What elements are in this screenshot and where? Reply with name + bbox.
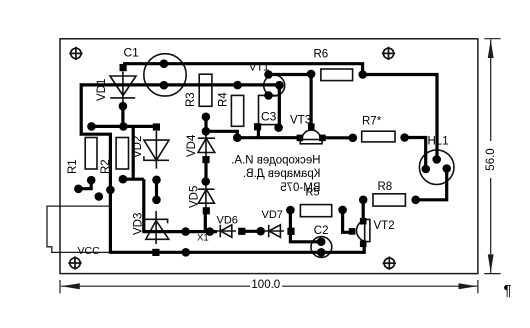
diode VD6	[216, 225, 236, 238]
node jumper VD2 bottom	[152, 196, 161, 205]
wire: rail2 VD1/C1/VT1 and left drop to VCC rail across bottom to VT2	[81, 85, 364, 252]
resistor R4	[231, 95, 243, 126]
svg-text:HL1: HL1	[428, 136, 449, 148]
pad VD4 bottom	[202, 156, 209, 163]
node C2 top	[317, 237, 326, 246]
pad VT3 left	[297, 135, 304, 142]
node R5 right	[338, 206, 347, 215]
wire: VD1 pad row to VD2 pad	[92, 125, 154, 128]
pad C1 left / VD1 top	[120, 64, 127, 71]
wire: VT1 emitter down C3 right edge	[278, 85, 281, 127]
resistor R8	[373, 194, 405, 206]
svg-text:R1: R1	[67, 159, 79, 174]
wire: R5 right lead down to VT2 base pad	[343, 210, 353, 232]
pad VT2 top	[360, 218, 367, 225]
board outline	[60, 39, 478, 274]
node C3 bottom-right	[274, 123, 283, 132]
wire: VD1 cathode lead down	[121, 106, 124, 126]
wire: R3 bottom pad jog to VT3 left pad	[206, 117, 300, 138]
node R6 left	[307, 70, 316, 79]
wire: VT1 collector to R6 left lead	[269, 73, 312, 76]
capacitor C2 body	[311, 237, 332, 258]
svg-text:R3: R3	[185, 92, 197, 107]
wire: jumper VD2-VD3	[155, 180, 158, 200]
svg-text:R8: R8	[378, 181, 393, 193]
node jumper VD2 top	[152, 176, 161, 185]
node VD6 left	[206, 227, 215, 236]
connector X (VCC) outline	[47, 206, 111, 252]
svg-text:R2: R2	[100, 159, 112, 174]
wire: HL1 right pad down to R8 right lead	[416, 169, 447, 200]
node via	[95, 192, 104, 201]
wire: VD2 branch down to VD3 and along diode row	[144, 179, 217, 231]
node C1 bottom	[160, 81, 169, 90]
capacitor C3 body	[259, 95, 281, 124]
pad VT2 base	[349, 228, 356, 235]
node main vertical	[106, 186, 115, 195]
node C1 top	[160, 59, 169, 68]
svg-text:56.0: 56.0	[485, 148, 497, 170]
wire: VD2 row horizontal	[123, 178, 144, 181]
pad C3 bottom-left	[254, 123, 261, 130]
mounting hole top-right	[382, 47, 395, 60]
node R7 left	[349, 134, 358, 143]
resistor R2	[116, 138, 128, 170]
diode VD2	[144, 131, 169, 169]
pad VT3 right	[319, 135, 326, 142]
wire: R7 right lead to HL1 left pad	[405, 138, 426, 170]
node R3 bottom	[202, 113, 211, 122]
diode VD4	[198, 131, 215, 159]
transistor VT1 body	[264, 75, 285, 96]
svg-text:VD7: VD7	[262, 209, 283, 221]
dimension 100.0 bottom	[60, 280, 478, 293]
svg-text:VT3: VT3	[290, 115, 311, 127]
svg-text:C3: C3	[261, 109, 277, 123]
node HL1 right	[442, 164, 451, 173]
node VT1 emitter	[275, 81, 284, 90]
node R5 left	[286, 206, 295, 215]
transistor VT3 body	[300, 130, 322, 144]
resistor R3	[199, 74, 212, 106]
svg-text:VCC: VCC	[78, 245, 101, 257]
diode VD3	[145, 211, 169, 244]
node C2 bottom	[317, 248, 326, 257]
svg-text:¶: ¶	[504, 282, 512, 299]
svg-text:VD6: VD6	[217, 214, 238, 226]
node R3 jog	[202, 127, 211, 136]
svg-text:X1: X1	[197, 233, 209, 244]
diode VD1	[110, 72, 136, 105]
node jumper R1 top	[87, 176, 96, 185]
pad VT2 bottom	[360, 241, 367, 248]
node VD1 cathode	[119, 102, 128, 111]
node R8 right	[411, 196, 420, 205]
node R4 bottom	[233, 133, 242, 142]
svg-text:VD3: VD3	[133, 213, 145, 235]
mounting hole bottom-right	[383, 257, 396, 270]
wire: VD4 pad to VD5 pad	[204, 160, 207, 182]
svg-text:ВМ-075: ВМ-075	[280, 182, 320, 194]
diode VD5	[198, 182, 214, 209]
node VD7 left	[256, 227, 265, 236]
mounting hole top-left	[69, 47, 82, 60]
pad VD5 bottom	[203, 207, 210, 214]
node R8 left	[359, 196, 368, 205]
node VCC rail	[182, 248, 191, 257]
wire: VT3 right pad to R7 left lead	[322, 136, 352, 139]
node R7 right	[400, 133, 409, 142]
node VD2 row left	[119, 175, 128, 184]
diode VD7	[265, 225, 284, 238]
node VD1 wire left	[119, 122, 128, 131]
svg-text:VD5: VD5	[189, 186, 201, 208]
pad VD6 right	[238, 228, 245, 235]
node VD3 right	[181, 227, 190, 236]
mounting hole bottom-left	[68, 256, 81, 269]
transistor VT2 body	[357, 220, 370, 242]
pad VT3 top	[308, 123, 315, 130]
wire: R6 left lead down to VT3 top pad	[310, 74, 313, 127]
wire: R5 left lead down to VD7 pad and to C2 top	[290, 210, 321, 242]
node VT1 collector	[264, 70, 273, 79]
node rail2 R4	[233, 81, 242, 90]
svg-text:VD2: VD2	[132, 136, 144, 158]
svg-text:R7*: R7*	[362, 116, 382, 128]
node jumper R1 bottom	[74, 185, 83, 194]
svg-text:VD4: VD4	[186, 134, 198, 157]
svg-text:VD1: VD1	[96, 79, 108, 101]
capacitor C1 body	[144, 54, 186, 96]
resistor R1	[85, 138, 97, 170]
svg-text:VT1: VT1	[249, 62, 269, 74]
wire: VD2 pad branch down	[132, 126, 135, 179]
svg-text:R6: R6	[314, 48, 329, 60]
pad VD2 top	[153, 123, 160, 130]
svg-text:VT2: VT2	[374, 220, 395, 232]
svg-text:C1: C1	[124, 46, 140, 60]
pad VCC rail	[152, 249, 159, 256]
wire: R8 left lead down to VT2 top pad	[362, 200, 365, 221]
svg-text:R4: R4	[218, 92, 230, 107]
node HL1 top	[432, 155, 441, 164]
wire: jumper under R1	[78, 180, 91, 189]
node R6 right	[358, 70, 367, 79]
wire: VD6 pad to VD7	[242, 230, 262, 233]
wire: VD5 bottom pad drop	[204, 211, 207, 232]
node VT1 base	[264, 91, 273, 100]
node HL1 left	[422, 165, 431, 174]
wire: C3 minus pad drop to VT3 wire	[257, 127, 260, 138]
node R1 top	[87, 122, 96, 131]
svg-text:Крамарев Д.В.: Крамарев Д.В.	[243, 168, 321, 180]
LED HL1 body	[419, 150, 454, 185]
resistor R5	[300, 205, 331, 217]
resistor R6	[321, 69, 353, 81]
dimension 56.0 right	[484, 39, 500, 274]
pad VD7 right	[287, 228, 294, 235]
svg-text:100.0: 100.0	[251, 279, 280, 291]
wire: +rail from C1 pad to R6 right lead and down to HL1 top	[123, 64, 437, 160]
node VD4 top	[201, 177, 210, 186]
svg-text:Нескородев И.А.: Нескородев И.А.	[231, 154, 320, 166]
svg-text:C2: C2	[314, 225, 329, 237]
resistor R7	[362, 131, 395, 142]
